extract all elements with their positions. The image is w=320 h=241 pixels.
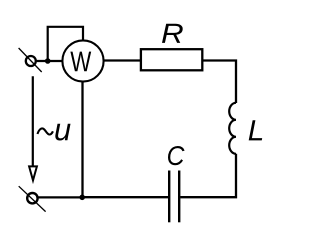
wire: inductor L down and left to capacitor right plate: [180, 154, 236, 197]
wire: capacitor left plate to node B: [82, 196, 168, 198]
wire: resistor R to inductor L (corner at top right): [202, 61, 236, 104]
node B junction dot: [79, 195, 85, 201]
label ~ (tilde of source): [38, 128, 53, 134]
label R: [162, 24, 183, 43]
wire: top-left terminal to wattmeter left: [37, 60, 64, 62]
terminal top-left: [19, 48, 42, 72]
wattmeter W: [62, 40, 103, 81]
label C: [168, 146, 185, 165]
wire: voltage-coil loop from node A up and over to wattmeter top: [48, 27, 83, 61]
terminal bottom-left: [19, 186, 46, 211]
wire: node B to bottom-left terminal: [39, 196, 83, 198]
resistor R: [141, 49, 202, 70]
voltage arrow u (open arrowhead): [29, 166, 37, 180]
label L: [249, 120, 262, 140]
inductor L: [229, 103, 236, 154]
wire: wattmeter bottom down to node B: [81, 82, 83, 198]
node A junction dot: [45, 58, 51, 64]
wire: wattmeter right to resistor R: [104, 59, 142, 61]
capacitor C: [169, 171, 179, 223]
label u: [55, 124, 70, 141]
voltage arrow u (line): [32, 76, 34, 166]
